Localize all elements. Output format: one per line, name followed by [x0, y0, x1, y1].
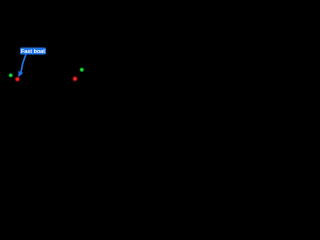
svg-text:Fast boat: Fast boat	[21, 49, 45, 55]
